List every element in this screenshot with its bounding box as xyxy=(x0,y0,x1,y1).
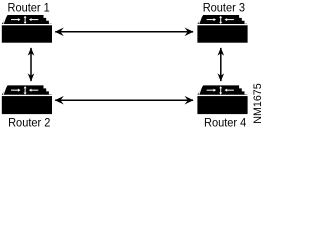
link arrow Router1-Router3 xyxy=(55,27,194,36)
router R2 xyxy=(2,85,52,114)
svg-text:Router 4: Router 4 xyxy=(204,116,247,128)
svg-text:Router 1: Router 1 xyxy=(8,1,51,15)
router R4 xyxy=(197,85,247,114)
link arrow Router1-Router2 xyxy=(28,48,35,82)
link arrow Router2-Router4 xyxy=(55,96,194,105)
svg-text:Router 2: Router 2 xyxy=(8,116,51,128)
svg-text:NM1675: NM1675 xyxy=(252,83,262,124)
link arrow Router3-Router4 xyxy=(218,48,225,82)
svg-text:Router 3: Router 3 xyxy=(203,1,246,15)
router R3 xyxy=(197,15,247,43)
router R1 xyxy=(2,15,52,43)
